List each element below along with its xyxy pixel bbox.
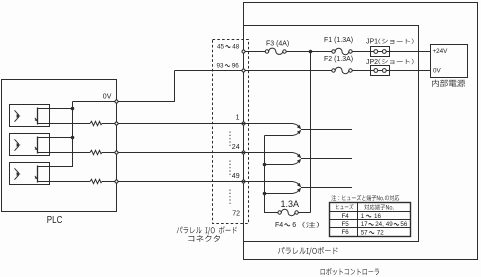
svg-text:1: 1: [361, 213, 365, 220]
wire +24V feed down to common fuse: [310, 52, 312, 213]
wire opto1 collector lead: [38, 108, 73, 110]
wire 0V bus A vertical: [38, 102, 73, 167]
svg-text:24,: 24,: [375, 221, 384, 228]
svg-text:56: 56: [400, 221, 407, 228]
connector dashed box: [213, 40, 249, 224]
svg-text:16: 16: [374, 213, 381, 220]
wire opto2 emitter lead: [38, 152, 91, 154]
node PLC 0V terminal: [115, 100, 118, 103]
svg-text:+24V: +24V: [433, 48, 449, 55]
svg-text:17: 17: [361, 221, 368, 228]
svg-text:F1 (1.3A): F1 (1.3A): [324, 35, 353, 44]
jumper JP1: [371, 47, 390, 57]
optocoupler PLC output 3: [10, 163, 50, 185]
wire 0V row: [175, 70, 334, 72]
wire opto3 collector lead: [38, 166, 73, 168]
node PLC output terminal 1: [115, 122, 118, 125]
svg-text:57: 57: [361, 230, 368, 237]
robot controller box: [244, 3, 478, 260]
fuse F2: [335, 67, 349, 73]
fuse F4-F6 1.3A: [281, 209, 295, 215]
wire collector output Q3: [301, 187, 352, 189]
label robot controller: [321, 268, 379, 275]
label parallel io board: [278, 247, 338, 255]
label connector line1: [177, 226, 237, 234]
svg-text:0V: 0V: [433, 68, 442, 75]
svg-text:F4: F4: [342, 213, 350, 220]
node pin 24: [242, 151, 245, 154]
wire PLC output 1 to pin and transistor: [102, 123, 293, 125]
wire emitter common bus: [265, 136, 279, 213]
wire opto1 emitter lead: [38, 123, 91, 125]
node pin 1: [242, 122, 245, 125]
svg-text:0V: 0V: [103, 93, 112, 100]
svg-text:72: 72: [377, 230, 384, 237]
node pin 45-48: [242, 50, 245, 53]
svg-text:96: 96: [232, 63, 240, 70]
node emitter junction row2: [263, 163, 267, 167]
wire PLC output 3 to pin and transistor: [102, 181, 293, 183]
svg-text:F3 (4A): F3 (4A): [266, 38, 289, 47]
wire collector output Q2: [301, 158, 352, 160]
svg-text:48: 48: [232, 44, 240, 51]
transistor Q3: [293, 182, 299, 185]
wire 0V route from PLC: [73, 71, 175, 102]
node PLC output terminal 2: [115, 151, 118, 154]
wire opto2 collector lead: [38, 137, 73, 139]
label naibu dengen (internal power): [432, 80, 465, 87]
note text: [331, 195, 399, 201]
node opto2 junction: [71, 136, 75, 140]
node opto1 junction: [71, 107, 75, 111]
node junction F3-F1: [309, 50, 313, 54]
resistor PLC output 2: [90, 150, 102, 154]
parallel I/O board box: [244, 26, 419, 242]
note table: [330, 203, 411, 237]
internal power supply box: [431, 45, 468, 78]
PLC box: [2, 80, 117, 212]
transistor Q2: [293, 153, 299, 156]
wire opto3 emitter lead: [38, 181, 91, 183]
svg-text:JP1: JP1: [366, 36, 378, 45]
transistor Q1: [293, 124, 299, 127]
resistor PLC output 1: [90, 121, 102, 125]
svg-text:72: 72: [232, 210, 240, 217]
node pin 49: [242, 180, 245, 183]
node PLC output terminal 3: [115, 180, 118, 183]
svg-text:F4: F4: [275, 222, 283, 229]
wire emitter lead row1: [265, 135, 293, 137]
resistor PLC output 3: [90, 179, 102, 183]
optocoupler PLC output 1: [10, 105, 50, 127]
svg-text:F2 (1.3A): F2 (1.3A): [324, 54, 353, 63]
svg-text:93: 93: [217, 63, 225, 70]
svg-text:F5: F5: [342, 221, 350, 228]
node pin 93-96: [242, 69, 245, 72]
svg-text:PLC: PLC: [47, 214, 63, 225]
dotted pin continuation marks: [229, 132, 231, 149]
svg-text:45: 45: [217, 44, 225, 51]
svg-text:49: 49: [232, 173, 240, 180]
wire collector output Q1: [301, 129, 352, 131]
node emitter junction row3: [263, 192, 267, 196]
optocoupler PLC output 2: [10, 134, 50, 156]
wire PLC output 2 to pin and transistor: [102, 152, 293, 154]
fuse F1: [335, 48, 349, 54]
wire emitter lead row2: [265, 164, 293, 166]
wire +24V row: [244, 51, 268, 53]
svg-text:24: 24: [232, 144, 240, 151]
svg-text:6: 6: [292, 222, 296, 229]
svg-text:1: 1: [236, 115, 240, 122]
wire emitter lead row3: [265, 193, 293, 195]
svg-text:1.3A: 1.3A: [281, 199, 300, 209]
svg-text:49: 49: [386, 221, 393, 228]
svg-text:F6: F6: [342, 229, 350, 236]
label connector line2: [188, 235, 220, 242]
fuse F3: [269, 48, 283, 54]
jumper JP2: [371, 66, 390, 76]
svg-text:JP2: JP2: [366, 57, 378, 66]
